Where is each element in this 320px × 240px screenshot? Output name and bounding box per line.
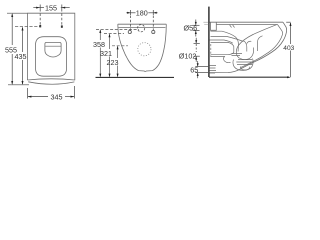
svg-text:345: 345 xyxy=(51,92,63,101)
svg-text:223: 223 xyxy=(107,58,119,67)
svg-text:358: 358 xyxy=(93,40,105,49)
svg-text:155: 155 xyxy=(45,3,57,12)
svg-text:180: 180 xyxy=(136,9,148,18)
svg-text:Ø102: Ø102 xyxy=(179,51,197,60)
svg-text:Ø56: Ø56 xyxy=(184,24,198,33)
svg-text:65: 65 xyxy=(190,65,198,74)
svg-text:403: 403 xyxy=(283,45,294,52)
svg-text:321: 321 xyxy=(100,49,112,58)
svg-text:435: 435 xyxy=(15,52,27,61)
